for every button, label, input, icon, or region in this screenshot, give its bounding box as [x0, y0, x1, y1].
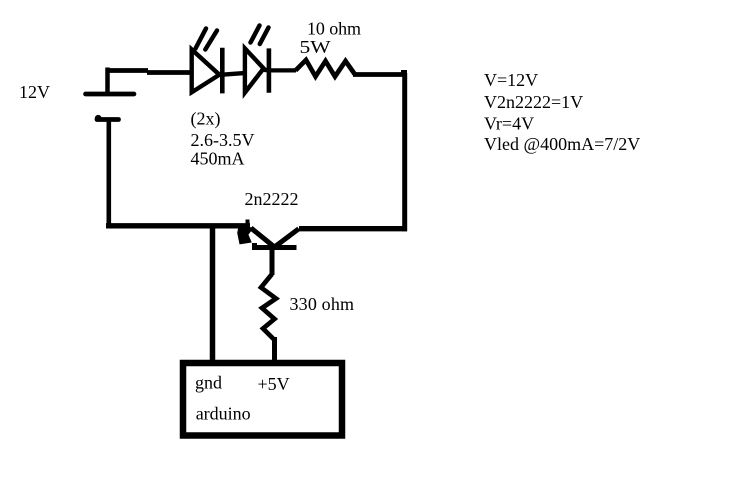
- svg-text:330 ohm: 330 ohm: [290, 294, 355, 314]
- svg-text:(2x): (2x): [191, 108, 221, 129]
- transistor Q1 base bar: [254, 243, 297, 250]
- svg-text:arduino: arduino: [196, 404, 251, 424]
- wire resistor R1 to top right corner: [353, 72, 405, 77]
- svg-text:2n2222: 2n2222: [245, 189, 299, 209]
- wire bottom right from corner to transistor collector: [299, 226, 407, 231]
- battery B1 negative plate start blob: [95, 115, 102, 122]
- led D2 triangle: [245, 48, 264, 92]
- svg-text:+5V: +5V: [258, 374, 290, 394]
- svg-text:Vled @400mA=7/2V: Vled @400mA=7/2V: [484, 134, 640, 154]
- transistor Q1 emitter arrowhead blob: [239, 228, 252, 244]
- svg-text:V2n2222=1V: V2n2222=1V: [484, 92, 583, 112]
- wire transistor base down to resistor R2: [270, 247, 275, 275]
- svg-text:gnd: gnd: [195, 373, 222, 393]
- resistor R2 330 ohm zigzag: [261, 274, 276, 339]
- led D1 cathode bar: [220, 48, 225, 94]
- svg-text:2.6-3.5V: 2.6-3.5V: [191, 130, 255, 150]
- led D1 triangle: [192, 50, 220, 93]
- wire resistor R2 to arduino +5V: [272, 337, 277, 362]
- led D2 cathode bar: [267, 48, 272, 92]
- transistor Q1 collector lead: [275, 229, 299, 247]
- battery B1 positive terminal post: [105, 68, 110, 94]
- svg-text:450mA: 450mA: [191, 148, 245, 168]
- battery B1 positive plate: [86, 92, 135, 97]
- wire from battery positive to LED D1 anode: [106, 71, 193, 73]
- transistor Q1 emitter lead: [251, 228, 275, 248]
- svg-text:Vr=4V: Vr=4V: [484, 113, 534, 133]
- svg-text:12V: 12V: [19, 82, 50, 102]
- svg-text:10 ohm: 10 ohm: [307, 18, 361, 38]
- node top right corner blob: [401, 70, 407, 76]
- wire from bottom rail down to arduino gnd: [210, 226, 216, 363]
- resistor R1 10 ohm zigzag: [296, 60, 356, 77]
- led D1 light rays: [196, 29, 218, 50]
- battery B1 negative plate: [97, 117, 119, 122]
- wire LED D2 cathode to resistor R1: [263, 68, 296, 73]
- wire LED D1 cathode to LED D2 anode: [219, 73, 247, 75]
- svg-text:V=12V: V=12V: [484, 70, 538, 90]
- wire right side vertical: [402, 73, 407, 231]
- svg-text:5W: 5W: [300, 37, 331, 57]
- arduino box: [183, 363, 342, 436]
- wire bottom from battery negative to transistor emitter: [106, 223, 250, 228]
- led D2 light rays: [251, 26, 269, 45]
- transistor Q1 emitter arrowhead: [246, 220, 250, 228]
- wire battery negative terminal down: [107, 119, 112, 228]
